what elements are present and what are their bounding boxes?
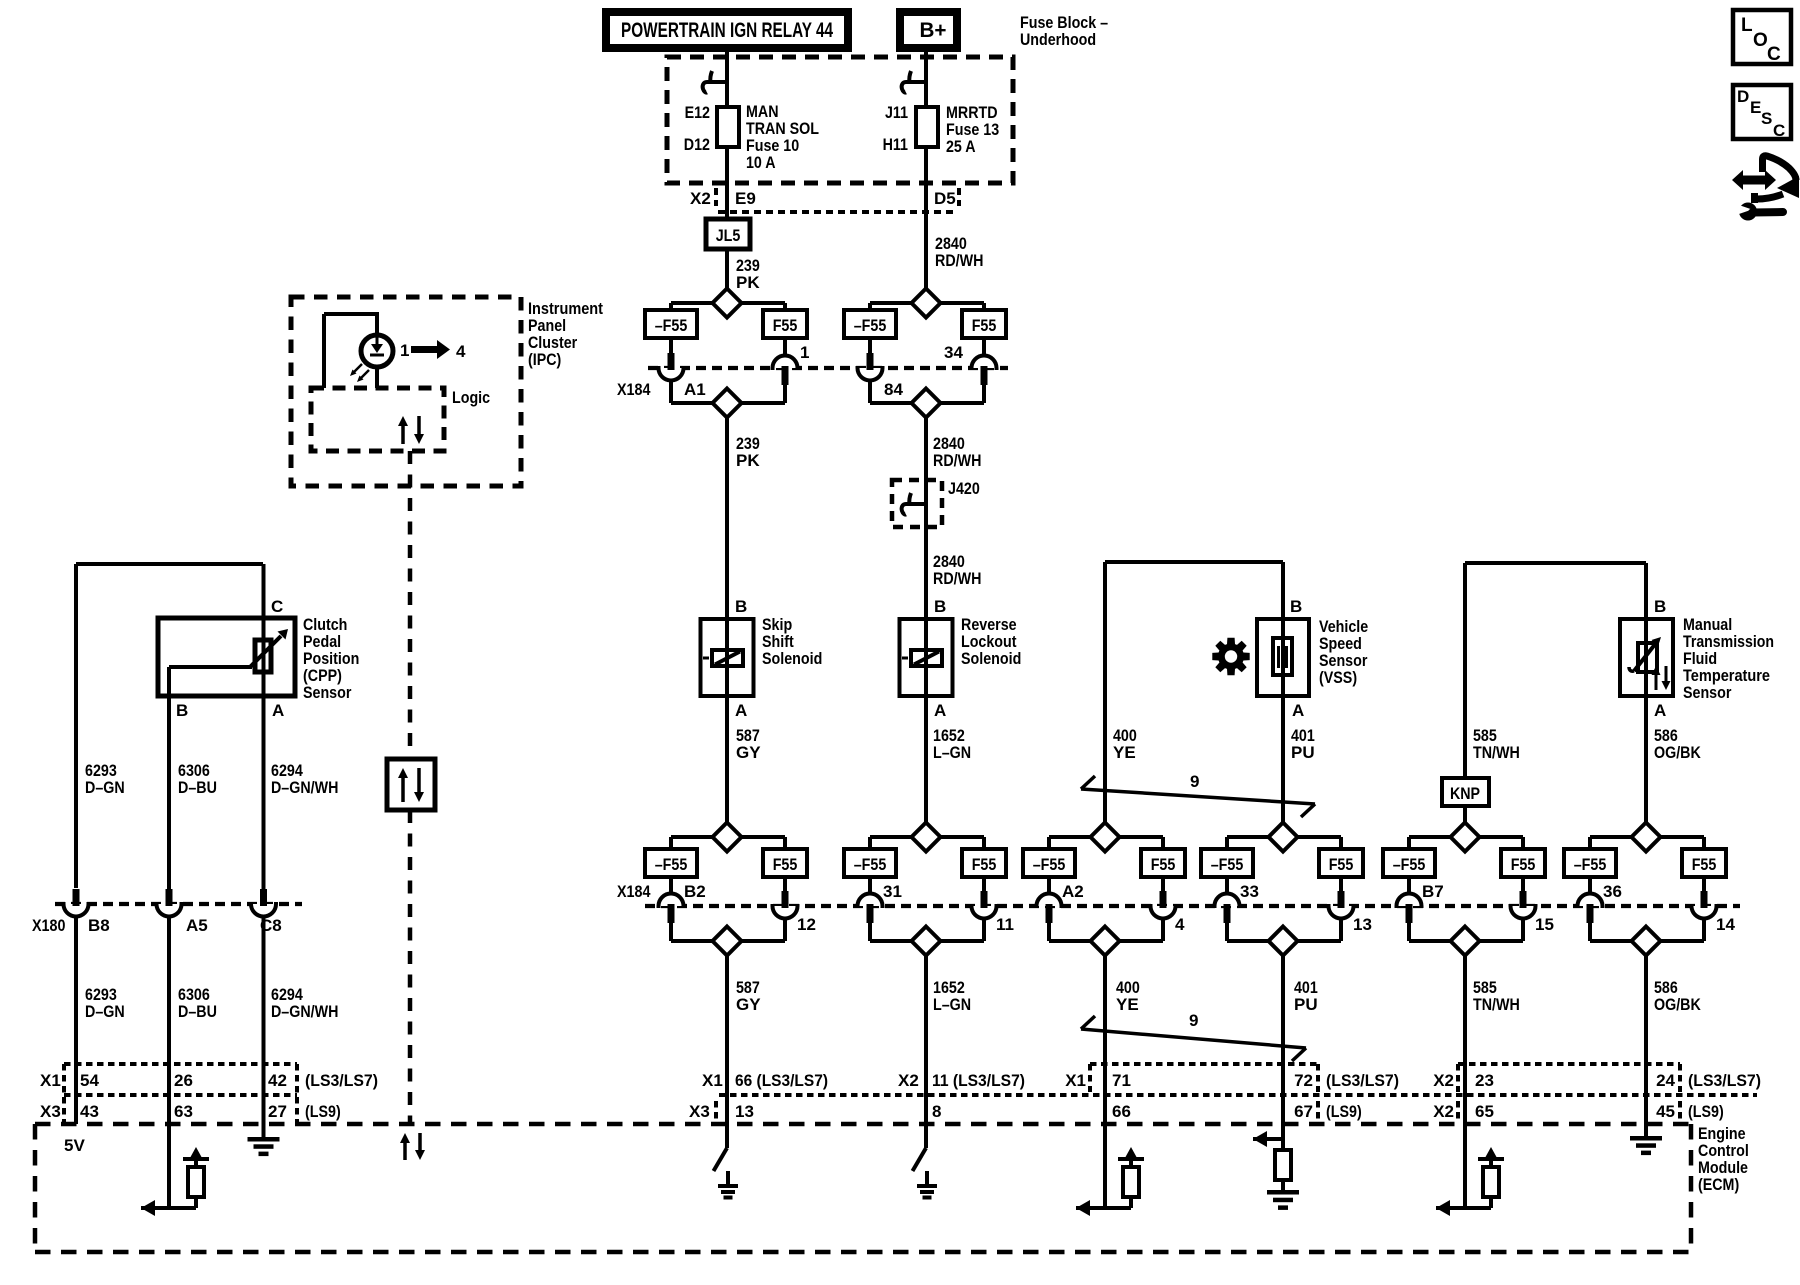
svg-text:OG/BK: OG/BK	[1654, 995, 1701, 1014]
svg-text:C: C	[1773, 121, 1785, 140]
svg-text:L–GN: L–GN	[933, 743, 971, 762]
svg-text:X3: X3	[689, 1102, 710, 1121]
svg-text:43: 43	[80, 1102, 99, 1121]
svg-text:(LS9): (LS9)	[305, 1102, 341, 1121]
svg-text:GY: GY	[736, 743, 761, 762]
svg-text:F55: F55	[1151, 855, 1176, 874]
svg-text:TN/WH: TN/WH	[1473, 743, 1520, 762]
svg-text:24: 24	[1656, 1071, 1675, 1090]
svg-text:JL5: JL5	[716, 226, 741, 245]
svg-text:F55: F55	[1692, 855, 1717, 874]
svg-text:–F55: –F55	[655, 316, 688, 335]
svg-text:D5: D5	[934, 189, 956, 208]
svg-text:A: A	[934, 701, 946, 720]
svg-text:C: C	[271, 597, 283, 616]
svg-text:(VSS): (VSS)	[1319, 668, 1357, 687]
svg-text:8: 8	[932, 1102, 941, 1121]
svg-text:(LS3/LS7): (LS3/LS7)	[1326, 1071, 1399, 1090]
svg-text:27: 27	[268, 1102, 287, 1121]
svg-text:(LS9): (LS9)	[1688, 1102, 1724, 1121]
svg-text:11: 11	[996, 915, 1014, 934]
svg-text:1: 1	[400, 341, 409, 360]
svg-text:L: L	[1741, 15, 1753, 36]
svg-text:C: C	[1767, 44, 1781, 65]
svg-text:D12: D12	[684, 135, 710, 154]
svg-text:J420: J420	[948, 479, 980, 498]
svg-text:B2: B2	[684, 882, 706, 901]
svg-text:13: 13	[1353, 915, 1372, 934]
svg-text:B+: B+	[920, 19, 947, 42]
svg-text:13: 13	[735, 1102, 754, 1121]
svg-text:D–BU: D–BU	[178, 1002, 217, 1021]
svg-text:–F55: –F55	[854, 316, 887, 335]
svg-text:X1: X1	[40, 1071, 61, 1090]
svg-text:D–GN/WH: D–GN/WH	[271, 778, 338, 797]
svg-text:B7: B7	[1422, 882, 1444, 901]
svg-text:F55: F55	[773, 316, 798, 335]
svg-text:66: 66	[1112, 1102, 1131, 1121]
svg-text:S: S	[1761, 109, 1772, 128]
svg-text:4: 4	[456, 342, 466, 361]
svg-text:Sensor: Sensor	[1683, 683, 1732, 702]
svg-text:(LS3/LS7): (LS3/LS7)	[305, 1071, 378, 1090]
svg-text:F55: F55	[972, 316, 997, 335]
svg-text:A: A	[272, 701, 284, 720]
svg-text:POWERTRAIN IGN RELAY 44: POWERTRAIN IGN RELAY 44	[621, 19, 833, 42]
svg-text:–F55: –F55	[1393, 855, 1426, 874]
svg-text:(ECM): (ECM)	[1698, 1175, 1739, 1194]
svg-text:B: B	[934, 597, 946, 616]
svg-text:31: 31	[883, 882, 902, 901]
svg-text:X2: X2	[898, 1071, 919, 1090]
svg-text:63: 63	[174, 1102, 193, 1121]
svg-text:1: 1	[800, 343, 809, 362]
svg-text:Solenoid: Solenoid	[762, 649, 822, 668]
svg-text:15: 15	[1535, 915, 1554, 934]
svg-text:PK: PK	[736, 451, 760, 470]
svg-text:25 A: 25 A	[946, 137, 976, 156]
svg-text:X180: X180	[32, 916, 65, 935]
svg-text:X1: X1	[1065, 1071, 1086, 1090]
svg-text:A1: A1	[684, 380, 706, 399]
svg-text:–F55: –F55	[1033, 855, 1066, 874]
svg-text:D–GN: D–GN	[85, 1002, 125, 1021]
svg-text:10 A: 10 A	[746, 153, 776, 172]
svg-text:45: 45	[1656, 1102, 1675, 1121]
svg-text:42: 42	[268, 1071, 287, 1090]
svg-text:E9: E9	[735, 189, 756, 208]
svg-text:PK: PK	[736, 273, 760, 292]
svg-text:Logic: Logic	[452, 388, 490, 407]
svg-text:84: 84	[884, 380, 903, 399]
svg-text:E12: E12	[685, 103, 710, 122]
svg-text:PU: PU	[1291, 743, 1315, 762]
svg-text:F55: F55	[1511, 855, 1536, 874]
svg-text:B: B	[735, 597, 747, 616]
svg-text:26: 26	[174, 1071, 193, 1090]
svg-text:B8: B8	[88, 916, 110, 935]
svg-text:(LS9): (LS9)	[1326, 1102, 1362, 1121]
svg-text:KNP: KNP	[1450, 784, 1480, 803]
svg-text:Solenoid: Solenoid	[961, 649, 1021, 668]
svg-text:RD/WH: RD/WH	[933, 569, 981, 588]
svg-text:66 (LS3/LS7): 66 (LS3/LS7)	[735, 1071, 828, 1090]
svg-text:B: B	[1654, 597, 1666, 616]
svg-text:O: O	[1753, 30, 1768, 51]
svg-text:E: E	[1750, 98, 1761, 117]
svg-text:J11: J11	[885, 103, 908, 122]
svg-text:X1: X1	[702, 1071, 723, 1090]
svg-text:5V: 5V	[64, 1136, 85, 1155]
svg-text:–F55: –F55	[655, 855, 688, 874]
svg-text:D–BU: D–BU	[178, 778, 217, 797]
svg-text:A5: A5	[186, 916, 208, 935]
svg-text:B: B	[1290, 597, 1302, 616]
svg-text:Sensor: Sensor	[303, 683, 352, 702]
svg-text:9: 9	[1190, 772, 1199, 791]
svg-text:Underhood: Underhood	[1020, 30, 1096, 49]
svg-text:12: 12	[797, 915, 816, 934]
svg-text:F55: F55	[773, 855, 798, 874]
svg-text:23: 23	[1475, 1071, 1494, 1090]
svg-text:L–GN: L–GN	[933, 995, 971, 1014]
svg-text:D: D	[1737, 87, 1749, 106]
svg-text:33: 33	[1240, 882, 1259, 901]
svg-text:A2: A2	[1062, 882, 1084, 901]
svg-text:H11: H11	[883, 135, 908, 154]
svg-text:X2: X2	[1433, 1071, 1454, 1090]
svg-text:65: 65	[1475, 1102, 1494, 1121]
svg-text:OG/BK: OG/BK	[1654, 743, 1701, 762]
svg-text:RD/WH: RD/WH	[935, 251, 983, 270]
svg-text:72: 72	[1294, 1071, 1313, 1090]
svg-text:X3: X3	[40, 1102, 61, 1121]
svg-text:F55: F55	[1329, 855, 1354, 874]
svg-text:–F55: –F55	[1574, 855, 1607, 874]
svg-text:71: 71	[1112, 1071, 1131, 1090]
svg-text:TN/WH: TN/WH	[1473, 995, 1520, 1014]
svg-text:11 (LS3/LS7): 11 (LS3/LS7)	[932, 1071, 1025, 1090]
svg-text:(IPC): (IPC)	[528, 350, 561, 369]
svg-text:X2: X2	[690, 189, 711, 208]
svg-text:X184: X184	[617, 380, 651, 399]
svg-text:34: 34	[944, 343, 963, 362]
svg-text:14: 14	[1716, 915, 1735, 934]
svg-text:–F55: –F55	[1211, 855, 1244, 874]
svg-text:X184: X184	[617, 882, 651, 901]
svg-text:PU: PU	[1294, 995, 1318, 1014]
svg-text:GY: GY	[736, 995, 761, 1014]
svg-text:D–GN: D–GN	[85, 778, 125, 797]
svg-text:–F55: –F55	[854, 855, 887, 874]
svg-text:YE: YE	[1116, 995, 1139, 1014]
svg-text:(LS3/LS7): (LS3/LS7)	[1688, 1071, 1761, 1090]
svg-text:F55: F55	[972, 855, 997, 874]
svg-text:A: A	[1292, 701, 1304, 720]
svg-text:B: B	[176, 701, 188, 720]
svg-text:4: 4	[1175, 915, 1185, 934]
svg-text:A: A	[735, 701, 747, 720]
svg-text:36: 36	[1603, 882, 1622, 901]
svg-text:X2: X2	[1433, 1102, 1454, 1121]
svg-text:67: 67	[1294, 1102, 1313, 1121]
svg-text:9: 9	[1189, 1011, 1198, 1030]
svg-text:YE: YE	[1113, 743, 1136, 762]
svg-text:A: A	[1654, 701, 1666, 720]
svg-text:RD/WH: RD/WH	[933, 451, 981, 470]
svg-text:54: 54	[80, 1071, 99, 1090]
svg-text:D–GN/WH: D–GN/WH	[271, 1002, 338, 1021]
